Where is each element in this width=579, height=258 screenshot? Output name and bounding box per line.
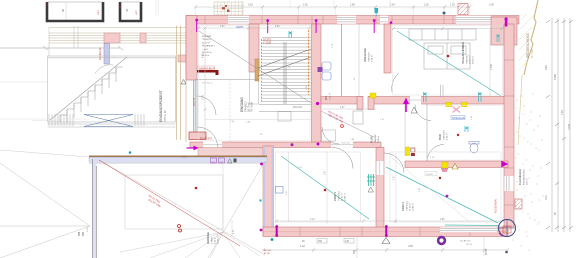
dashed service line [229, 80, 231, 143]
dim chain wohnkueche vertical [203, 27, 207, 141]
marker M1 left wall [195, 19, 198, 32]
svg-text:1.90: 1.90 [561, 110, 564, 115]
teal diagonal kind1 [281, 156, 369, 219]
dim chain wohnkueche horizontal [197, 26, 311, 30]
svg-text:2.5%: 2.5% [87, 227, 89, 232]
site faint lines left [0, 82, 89, 121]
outdoor stair steps [60, 67, 123, 122]
marker dumbbell band D west [275, 225, 278, 237]
cyan glyph band A east [479, 92, 482, 102]
wall band C bad south [405, 161, 508, 168]
red mark under yellow [441, 169, 448, 171]
box label under band C [425, 172, 437, 176]
svg-text:FB +0.00: FB +0.00 [251, 102, 254, 112]
cyan glyph stair top [289, 31, 292, 38]
washbasin fixture [469, 142, 479, 154]
svg-text:FB: PARKETT: FB: PARKETT [202, 45, 216, 48]
marker band B west [187, 146, 199, 151]
teal dot band D [271, 238, 274, 241]
sight line to garage corner top [0, 150, 89, 157]
dim chain bedroom top [392, 27, 504, 30]
svg-text:10.49: 10.49 [568, 123, 571, 130]
marker M2 top band [266, 19, 269, 33]
interior stair steps [262, 37, 311, 101]
kind2 inner outline [390, 152, 501, 222]
svg-text:DN 2.04: DN 2.04 [293, 106, 302, 109]
yellow sensor 2 band A [462, 102, 468, 107]
wall kind1 west [263, 146, 274, 236]
window W2 top [337, 16, 356, 24]
dimension vertical 4 [569, 18, 571, 232]
svg-text:LÜFT: LÜFT [97, 9, 100, 15]
flur cable diagonal [321, 111, 374, 137]
svg-text:13.81 m: 13.81 m [345, 193, 347, 201]
dark red bits klima [411, 148, 415, 152]
svg-text:TWH2011: TWH2011 [369, 52, 371, 62]
yellow small ankleide [370, 93, 376, 98]
svg-text:4.18: 4.18 [300, 245, 305, 248]
lintel TURBOPLAS dark red [197, 70, 219, 75]
garage diagonal main [99, 160, 265, 255]
red dot kind1 [324, 189, 327, 192]
dimension ticks right [546, 20, 573, 229]
dim chain flur horizontal [322, 107, 376, 109]
wohnkueche info block [202, 36, 216, 57]
garage diagonal cross [208, 161, 265, 258]
garage left wall [93, 159, 97, 258]
garage inner rect [125, 175, 223, 229]
dark red dot hall [439, 177, 441, 179]
svg-text:+-0.00: +-0.00 [181, 157, 188, 159]
svg-text:90 50: 90 50 [485, 248, 488, 255]
svg-text:2.64: 2.64 [390, 4, 395, 7]
chimney block A [47, 2, 103, 21]
interior stair break line [258, 49, 311, 76]
outdoor stair outline [48, 56, 176, 127]
svg-text:TWH2017: TWH2017 [202, 39, 212, 41]
svg-text:B55: B55 [78, 231, 81, 236]
entrance step wall thick section [198, 148, 267, 157]
purple fitting [318, 67, 323, 72]
tan break band [524, 0, 538, 75]
svg-text:FLACHDACH: FLACHDACH [518, 169, 522, 185]
magenta dot band A west [316, 102, 319, 105]
svg-text:KIND 2: KIND 2 [401, 202, 405, 211]
window W1 top [228, 16, 249, 24]
svg-text:3.24: 3.24 [545, 195, 548, 200]
svg-text:STB.PL 02: STB.PL 02 [164, 110, 167, 122]
inner face bad [427, 106, 503, 161]
stair base hatch right [135, 114, 144, 126]
magenta arrow band A [403, 98, 409, 113]
entrance platform rails [177, 24, 187, 142]
inner face wohnkueche [199, 26, 311, 141]
flat roof stipple [517, 94, 544, 233]
wall V4 ankleide west [384, 24, 391, 73]
white triangle band D [382, 238, 390, 244]
wall left exterior upper [186, 16, 197, 81]
red hatch box [458, 4, 468, 15]
purple donut [438, 237, 445, 244]
entrance door arc [198, 127, 218, 147]
inner face schlafzimmer [393, 26, 503, 96]
door gap band A [410, 96, 421, 105]
partition ankleide shelf [358, 24, 360, 97]
teal horizontal kind2 [445, 224, 499, 227]
porch horizontal lines [49, 28, 186, 44]
svg-text:KG-AP 202: KG-AP 202 [460, 240, 471, 243]
svg-text:4.60 m²: 4.60 m² [446, 132, 449, 140]
partition flur-klima [404, 104, 406, 147]
dim chain kind1 vertical [286, 151, 327, 224]
yellow bar klima [405, 147, 410, 156]
svg-text:FLUR: FLUR [370, 136, 374, 143]
red hatch rect in circle [503, 226, 511, 233]
svg-text:3.62: 3.62 [248, 4, 253, 7]
svg-text:3.44: 3.44 [310, 219, 315, 221]
door arc flur [427, 145, 444, 162]
svg-text:125 m²: 125 m² [526, 178, 529, 185]
svg-text:EL 90: EL 90 [264, 253, 270, 255]
cyan glyph above band [375, 8, 379, 16]
svg-text:TWH2017: TWH2017 [375, 133, 377, 143]
door arc kind1 [332, 148, 353, 169]
wall top exterior band [186, 16, 519, 25]
corner block NE [491, 17, 517, 45]
svg-text:305: 305 [353, 249, 356, 254]
window band D [440, 227, 497, 232]
svg-text:4.38: 4.38 [203, 53, 205, 58]
garage red cable line [99, 160, 240, 246]
svg-text:EINGANG: EINGANG [240, 97, 244, 112]
red dot bad [457, 134, 459, 136]
schlafzimmer bed [424, 43, 470, 69]
porch door arc [95, 65, 113, 74]
interior stair handrail orange [261, 39, 263, 102]
svg-text:11.07 m²: 11.07 m² [341, 192, 344, 201]
yellow sensor band C [442, 162, 448, 168]
svg-text:NO1 F90: NO1 F90 [194, 97, 196, 106]
door arc kind2 [384, 153, 404, 173]
door jamb bedroom [441, 85, 444, 97]
svg-text:905: 905 [82, 231, 85, 236]
wall band D bottom exterior [263, 227, 508, 237]
blue label box band A [451, 116, 465, 120]
svg-text:M 1:100: M 1:100 [531, 49, 534, 58]
wall left glazing lower [194, 80, 198, 135]
svg-text:45: 45 [125, 8, 129, 12]
triangle marker west [181, 80, 186, 85]
triangle below teal stack [368, 187, 374, 192]
svg-text:WC: WC [324, 96, 328, 100]
door gap band B [203, 142, 222, 148]
teal diagonal schlafzimmer [397, 31, 501, 96]
triangle band C [452, 164, 458, 170]
svg-text:ERDGESCHOSS: ERDGESCHOSS [526, 33, 530, 58]
bottom dim chain [263, 249, 508, 251]
svg-text:+-0.00: +-0.00 [202, 49, 209, 51]
teal stack fitting [367, 174, 375, 186]
svg-text:KIND 1: KIND 1 [333, 192, 337, 201]
garage small dim [231, 220, 233, 236]
dimension vertical 1 [551, 18, 553, 232]
svg-text:3.85: 3.85 [440, 219, 445, 221]
svg-text:18.10 m: 18.10 m [473, 56, 475, 64]
svg-text:RD 30 STG: RD 30 STG [200, 138, 212, 141]
post tan [255, 59, 259, 81]
yellow sensor 1 band A [446, 102, 452, 107]
wall right exterior [504, 24, 514, 227]
porch dimension line [0, 46, 123, 50]
svg-text:2.38: 2.38 [489, 4, 494, 7]
svg-text:KIESDECKUNG: KIESDECKUNG [524, 169, 526, 185]
wall band B south of wohnkueche [190, 142, 381, 148]
svg-text:13.81 m: 13.81 m [413, 203, 415, 211]
bottom dim boxes [317, 239, 327, 244]
outdoor stair stringer diagonal [50, 57, 127, 120]
flur cabinet [322, 130, 336, 141]
svg-text:TWH2017: TWH2017 [444, 129, 446, 140]
stair shaft box [278, 112, 291, 122]
porch pink pad [104, 33, 120, 43]
marker dumbbell band D mid [385, 225, 388, 237]
marker band B mid [291, 143, 294, 146]
marker M5 bedroom corner [390, 21, 393, 24]
window W3 top [380, 16, 388, 24]
cyan fitting bad [465, 126, 468, 132]
dimension vertical 2 [557, 18, 559, 232]
svg-text:LÜFT: LÜFT [135, 9, 138, 15]
sight line lower [0, 226, 90, 258]
magenta arrow band C east [501, 161, 509, 168]
sight line horizontal [0, 225, 90, 227]
svg-text:OK 50: OK 50 [466, 244, 473, 246]
kind1 cabinet [276, 187, 284, 194]
svg-text:36.17 m²: 36.17 m² [202, 41, 210, 44]
svg-text:20.35 m²: 20.35 m² [217, 235, 220, 244]
svg-text:5.36 m²: 5.36 m² [371, 54, 374, 62]
schlafzimmer inner dim line [489, 29, 491, 96]
svg-text:AP 202: AP 202 [264, 249, 272, 252]
entrance step marks [181, 157, 237, 164]
svg-text:1.76: 1.76 [450, 4, 455, 7]
west wall stub [178, 55, 186, 62]
window right wall [504, 176, 513, 191]
wall V3 stair east [312, 24, 322, 147]
chimney block B [120, 2, 141, 21]
tan hatch wedge [519, 14, 534, 70]
svg-text:2.62: 2.62 [303, 4, 308, 7]
magenta dot kind2 [446, 195, 449, 198]
stair base bowtie brace [84, 115, 133, 127]
red marks in grid [222, 5, 230, 12]
red dot schlafzimmer [447, 55, 450, 58]
svg-text:5.385: 5.385 [554, 73, 557, 80]
svg-text:5.40 m²: 5.40 m² [377, 136, 380, 143]
garage top wall [89, 156, 267, 163]
partition flur-bad [426, 104, 428, 161]
cyan dot garage wall [129, 151, 132, 154]
svg-text:4.50 m: 4.50 m [215, 237, 217, 244]
garage center vertical [222, 160, 224, 232]
svg-text:120/80: 120/80 [426, 174, 433, 176]
wall band A mid horizontal [321, 97, 508, 105]
svg-text:1.97: 1.97 [340, 107, 345, 109]
svg-text:4.565: 4.565 [490, 63, 493, 70]
flur door arc [322, 127, 339, 144]
garage fan rays [120, 232, 260, 258]
kind2 gray diagonal [392, 158, 470, 222]
svg-text:13.60 m²: 13.60 m² [469, 55, 472, 64]
svg-text:1.05 2.04: 1.05 2.04 [341, 143, 351, 145]
svg-text:1 PKW: 1 PKW [212, 236, 214, 244]
svg-text:SCHLAFZIMMER: SCHLAFZIMMER [461, 42, 465, 64]
svg-text:17.5/28: 17.5/28 [263, 42, 272, 45]
paving grid [214, 2, 243, 15]
interior stair divider [283, 42, 285, 104]
svg-text:NO 02 W.AN: NO 02 W.AN [495, 199, 498, 213]
svg-text:2.26: 2.26 [424, 4, 429, 7]
extra stipple [513, 108, 540, 251]
red hatch box outside wall [515, 199, 522, 209]
marker M4 top band [373, 19, 376, 33]
stair opening south edge [259, 105, 312, 112]
chimney red marks [46, 3, 138, 15]
svg-text:2.26: 2.26 [220, 26, 225, 28]
marker M3 top band [315, 19, 318, 33]
door arc west wohnkueche [197, 96, 216, 115]
door arc ankleide south [392, 73, 399, 92]
svg-text:3.74: 3.74 [203, 95, 205, 100]
wall divider kind1 kind2 [376, 148, 384, 228]
schlafzimmer closet row [409, 29, 476, 40]
drain circle navy [499, 220, 516, 237]
kind1 inner outline [276, 152, 361, 222]
stair base hatch left [49, 114, 73, 126]
porch lavender post [104, 44, 110, 65]
top dim chain [195, 6, 470, 8]
teal dot above band [443, 12, 446, 15]
teal diagonal kind2 [386, 167, 498, 223]
window W4 top [456, 16, 491, 24]
pink cross symbol [453, 107, 461, 113]
tan break continuation [518, 75, 522, 145]
flur red ring [341, 125, 344, 128]
svg-text:1.91 m²: 1.91 m² [329, 92, 332, 100]
svg-text:3.85: 3.85 [408, 245, 413, 248]
svg-text:3.67: 3.67 [325, 170, 327, 175]
dim chain kind2 vertical [394, 153, 397, 224]
svg-text:GARAGE: GARAGE [206, 232, 210, 244]
svg-text:3.67: 3.67 [394, 175, 396, 180]
marker band B east [317, 143, 320, 146]
cyan glyph band A west [424, 92, 427, 102]
porch outline verticals [49, 26, 78, 56]
svg-text:TWH2017: TWH2017 [339, 190, 341, 201]
bottom vertical dim lines [356, 237, 358, 258]
garage red dot upper [195, 187, 198, 190]
wall V2 garderobe [249, 24, 259, 72]
svg-text:90: 90 [61, 8, 65, 12]
extension lines to band [156, 0, 470, 16]
partition wc east [341, 24, 343, 97]
klima cabinet [353, 111, 363, 124]
svg-text:VL5 90 Lg: VL5 90 Lg [202, 83, 213, 85]
top band joint ticks [205, 16, 453, 25]
dimension vertical 3 [563, 18, 565, 232]
svg-text:350: 350 [318, 240, 323, 243]
svg-text:418: 418 [345, 240, 350, 243]
svg-text:ANKLEIDE: ANKLEIDE [363, 48, 367, 62]
svg-text:3.85: 3.85 [545, 65, 548, 70]
svg-text:BAD: BAD [438, 134, 442, 140]
garage red dots [178, 225, 181, 228]
marker M6 NE corner [505, 17, 508, 26]
dim chain above band D [275, 219, 503, 223]
svg-text:EINGANGSPODEST: EINGANGSPODEST [159, 90, 163, 122]
svg-text:TWH2017: TWH2017 [407, 200, 409, 211]
door arc bad [415, 105, 431, 121]
porch pink pad small [140, 33, 146, 43]
wall stub SW pillar [189, 132, 206, 140]
WC fixtures [322, 62, 331, 80]
white triangle band A [411, 107, 417, 113]
svg-text:2.89: 2.89 [350, 4, 355, 7]
small dot below circle [505, 251, 508, 254]
sight line upper [0, 163, 90, 226]
svg-text:2.89: 2.89 [275, 26, 280, 28]
top band mid line [186, 19, 519, 21]
svg-text:11.36 m²: 11.36 m² [409, 202, 412, 211]
svg-text:TWH2017: TWH2017 [467, 53, 469, 64]
svg-text:SPIEGEL80: SPIEGEL80 [452, 117, 466, 120]
wohnkueche diagonal [199, 31, 311, 103]
